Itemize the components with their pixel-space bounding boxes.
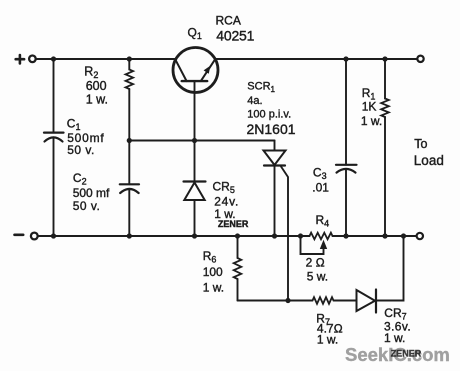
capacitor C1	[44, 59, 64, 236]
resistor R2	[126, 59, 134, 141]
svg-text:To: To	[414, 137, 427, 151]
svg-text:ZENER: ZENER	[218, 219, 249, 229]
resistor R1	[381, 59, 389, 236]
junction CR7 riser / bottom rail	[401, 233, 406, 238]
junction SCR1 gate / lower branch	[285, 298, 290, 303]
wire: top rail right (emitter side)	[215, 58, 417, 60]
junction C3 / top rail	[343, 56, 348, 61]
output terminal top right	[417, 56, 423, 62]
wire: R7 to CR7	[334, 300, 357, 302]
svg-text:500 mf: 500 mf	[73, 186, 110, 200]
svg-text:4a.: 4a.	[247, 95, 262, 107]
wire: lower branch left	[238, 300, 313, 302]
output terminal bottom right	[417, 233, 423, 239]
svg-text:1 w.: 1 w.	[317, 333, 338, 347]
junction CR5 / bottom rail	[192, 233, 197, 238]
svg-text:50 v.: 50 v.	[67, 143, 95, 157]
svg-text:1 w.: 1 w.	[384, 331, 405, 345]
SCR1 gate wire	[281, 167, 288, 301]
svg-text:2N1601: 2N1601	[247, 121, 296, 137]
resistor R7	[313, 297, 334, 304]
junction R1 / top rail	[382, 56, 387, 61]
svg-text:ZENER: ZENER	[391, 349, 422, 359]
junction R2 / top rail	[127, 56, 132, 61]
junction R4 wiper tie / bottom rail	[298, 233, 303, 238]
R4 wiper arm	[301, 236, 328, 254]
junction C1 / top rail	[51, 56, 56, 61]
junction C3 / bottom rail	[343, 233, 348, 238]
junction R1 / bottom rail	[382, 233, 387, 238]
transistor Q1	[173, 48, 218, 141]
svg-text:1 w.: 1 w.	[86, 92, 108, 106]
junction C1 / bottom rail	[51, 233, 56, 238]
SCR1	[264, 141, 286, 237]
svg-text:1 w.: 1 w.	[361, 114, 382, 128]
resistor R6	[234, 236, 242, 301]
zener diode CR7	[357, 290, 377, 313]
svg-text:Load: Load	[414, 153, 444, 168]
junction C2 / bottom rail	[127, 233, 132, 238]
svg-text:2 Ω: 2 Ω	[306, 256, 325, 270]
svg-text:1K: 1K	[362, 100, 377, 114]
zener diode CR5	[184, 141, 206, 237]
wire: bottom rail left of R4	[38, 235, 310, 237]
minus input terminal	[15, 233, 38, 240]
wire: bottom rail right of R4	[333, 235, 417, 237]
plus input terminal	[16, 55, 36, 63]
svg-text:5 w.: 5 w.	[307, 270, 328, 284]
rheostat R4	[310, 233, 333, 240]
junction Q1 base-CR5 / base node	[192, 138, 197, 143]
capacitor C3	[336, 59, 357, 236]
svg-text:100 p.i.v.: 100 p.i.v.	[247, 109, 291, 121]
junction R6 / bottom rail	[235, 233, 240, 238]
capacitor C2	[120, 141, 139, 237]
svg-text:RCA: RCA	[216, 14, 241, 28]
svg-text:1 w.: 1 w.	[203, 281, 224, 295]
wire: top rail left (collector side)	[36, 58, 176, 60]
svg-text:100: 100	[203, 265, 223, 279]
wire: middle rail (base node)	[129, 140, 274, 142]
wire: CR7 to bottom rail riser	[376, 236, 404, 301]
junction SCR1 cathode / bottom rail	[272, 233, 277, 238]
svg-text:50 v.: 50 v.	[73, 199, 101, 213]
junction R2-C2 / base node	[127, 138, 132, 143]
svg-text:600: 600	[86, 79, 107, 93]
svg-text:40251: 40251	[216, 27, 254, 43]
svg-text:.01: .01	[312, 181, 329, 195]
